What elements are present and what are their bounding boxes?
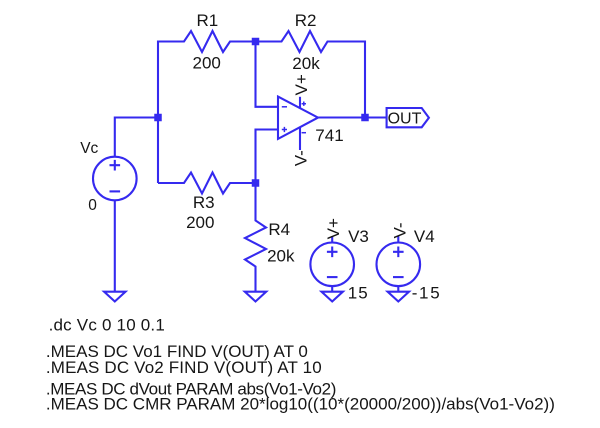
svg-text:.dc Vc 0 10 0.1: .dc Vc 0 10 0.1 [49,315,165,334]
svg-text:.MEAS DC Vo2 FIND V(OUT) AT 10: .MEAS DC Vo2 FIND V(OUT) AT 10 [46,358,322,377]
svg-text:R4: R4 [268,220,290,239]
svg-text:15: 15 [348,284,369,303]
svg-text:V+: V+ [292,74,311,95]
svg-text:V-: V- [292,150,311,166]
svg-text:20k: 20k [267,247,295,266]
svg-text:20k: 20k [292,54,320,73]
svg-text:Vc: Vc [80,140,98,157]
svg-text:R3: R3 [193,193,215,212]
svg-text:V4: V4 [414,227,435,246]
svg-text:741: 741 [315,126,343,145]
svg-text:R2: R2 [295,11,317,30]
svg-text:V3: V3 [348,227,369,246]
svg-text:R1: R1 [197,11,219,30]
svg-text:V-: V- [390,222,409,238]
svg-text:V+: V+ [324,218,343,239]
svg-text:.MEAS DC CMR PARAM 20*log10((1: .MEAS DC CMR PARAM 20*log10((10*(20000/2… [46,395,555,414]
svg-text:-15: -15 [412,284,442,303]
svg-text:0: 0 [88,197,97,214]
svg-text:200: 200 [193,53,221,72]
svg-text:OUT: OUT [388,111,422,128]
svg-text:200: 200 [186,213,214,232]
